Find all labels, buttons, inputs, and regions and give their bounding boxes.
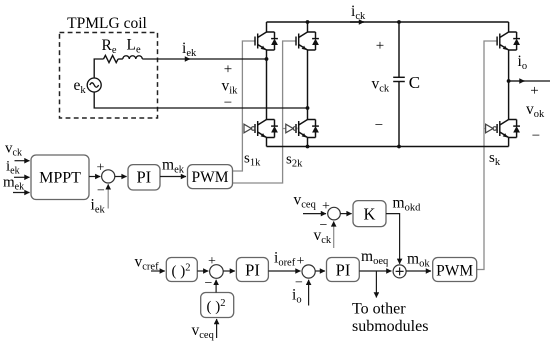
svg-text:PI: PI (245, 261, 260, 280)
svg-text:+: + (297, 254, 305, 269)
svg-text:+: + (224, 62, 232, 78)
source e_k (87, 78, 101, 92)
node cap bottom (397, 145, 401, 149)
svg-text:( )2: ( )2 (172, 263, 191, 280)
block K (353, 201, 386, 227)
node leg2 top (306, 20, 310, 24)
transistor S1k-top IGBT (255, 32, 278, 50)
node leg1 midpoint (265, 57, 269, 61)
svg-text:iek: iek (182, 40, 197, 59)
node leg2 midpoint (306, 106, 310, 110)
inductor L_e (123, 56, 143, 59)
wire PI3 to sum5 (m_oeq) (359, 270, 391, 272)
wire arrow v_ck into MPPT (15, 160, 30, 162)
wire sum5 to PWM2 (m_ok) (406, 270, 431, 272)
wire MPPT to sum1 (89, 176, 100, 178)
bottom DC rail (267, 146, 509, 148)
wire arrow m_ek into MPPT (13, 192, 30, 194)
svg-text:MPPT: MPPT (39, 170, 81, 187)
svg-text:−: − (97, 184, 105, 199)
svg-text:vceq: vceq (294, 192, 317, 211)
i_ck arrow on top rail (350, 21, 364, 23)
svg-text:C: C (409, 73, 420, 92)
svg-text:ek: ek (74, 77, 87, 96)
wire sum2 to PI2 (223, 270, 235, 272)
TPMLG dashed enclosure (60, 33, 158, 119)
svg-text:+: + (530, 83, 538, 99)
node leg2 bottom (306, 145, 310, 149)
wire source bottom to leg2 midpoint (94, 92, 307, 108)
svg-text:−: − (532, 128, 540, 144)
svg-text:mok: mok (407, 251, 430, 270)
resistor R_e (104, 55, 119, 62)
svg-text:vik: vik (222, 78, 239, 97)
node cap top (397, 20, 401, 24)
wire arrow i_ek into MPPT (14, 176, 30, 178)
transistor Sk-top IGBT (497, 32, 520, 50)
svg-text:PI: PI (336, 261, 351, 280)
svg-text:+: + (376, 38, 384, 54)
wire v_ceq into sum4 (303, 213, 326, 215)
wire v_ceq up into sq2 (216, 319, 218, 338)
svg-text:vck: vck (5, 141, 22, 159)
wire sq1 to sum2 (197, 270, 208, 272)
svg-text:−: − (224, 95, 232, 111)
summing junction sum3 (302, 265, 315, 278)
svg-text:mek: mek (162, 157, 185, 176)
wire i_ek feedback into sum1 (107, 184, 109, 208)
wire sum1 to PI1 (115, 176, 127, 178)
svg-text:ick: ick (351, 3, 366, 22)
svg-text:io: io (518, 53, 528, 72)
svg-text:iek: iek (91, 197, 106, 216)
wire K to sum5 (m_okd) (386, 214, 400, 264)
top DC rail (267, 21, 509, 23)
svg-text:+: + (208, 254, 216, 269)
wire s1k vertical (233, 41, 256, 171)
transistor S1k-bottom IGBT with inverter (244, 120, 278, 138)
wire sk vertical (477, 41, 498, 270)
svg-text:moeq: moeq (361, 248, 389, 267)
wire sq2 up into sum2 (215, 280, 217, 293)
transistor S2k-top IGBT (296, 32, 319, 50)
svg-text:vcref: vcref (135, 254, 160, 273)
wire right leg verticals (508, 22, 510, 147)
svg-text:Le: Le (127, 37, 141, 56)
svg-text:TPMLG coil: TPMLG coil (67, 15, 147, 32)
svg-text:To other: To other (352, 301, 406, 318)
block PI2 (236, 258, 268, 282)
svg-text:s2k: s2k (286, 152, 303, 170)
svg-text:Re: Re (102, 37, 117, 56)
wire v_ck into sum4 from below (333, 221, 335, 248)
svg-text:−: − (375, 118, 383, 134)
svg-text:+: + (322, 199, 330, 214)
summing junction sum2 (210, 265, 224, 279)
wire v_cref into sq1 (151, 270, 165, 272)
svg-text:vceq: vceq (192, 322, 215, 341)
summing junction sum4 (328, 207, 341, 220)
svg-text:mokd: mokd (393, 195, 422, 214)
capacitor C (393, 22, 405, 147)
svg-text:+: + (97, 161, 105, 176)
transistor Sk-bottom IGBT with inverter (484, 120, 520, 138)
wire leg2 verticals (307, 22, 309, 147)
wire PI1 to PWM1 (160, 176, 186, 178)
svg-text:vck: vck (372, 76, 390, 95)
block MPPT (31, 155, 89, 200)
block squarer1 ( )^2 (166, 258, 197, 282)
wire inductor to leg1 midpoint with i_ek arrow (142, 58, 190, 60)
block PWM1 (188, 165, 233, 189)
summing junction sum5 (circle with plus) (393, 265, 406, 278)
wire resistor to inductor (118, 58, 123, 60)
wire sum4 to K (340, 213, 351, 215)
svg-text:PWM: PWM (191, 169, 228, 186)
svg-text:PI: PI (136, 168, 151, 187)
wire source top to resistor (94, 59, 103, 78)
output wire right leg with i_o arrow (509, 80, 525, 82)
wire sum3 to PI3 (315, 270, 325, 272)
svg-text:PWM: PWM (436, 263, 473, 280)
svg-text:( )2: ( )2 (207, 298, 226, 315)
wire i_o into sum3 (308, 280, 310, 306)
wire branch to other submodules (375, 271, 377, 298)
block squarer2 ( )^2 (201, 293, 234, 318)
svg-text:s1k: s1k (244, 151, 261, 169)
transistor S2k-bottom IGBT with inverter (283, 120, 319, 138)
block PWM2 (433, 258, 477, 282)
wire leg1 verticals (266, 22, 268, 147)
svg-text:sk: sk (489, 150, 501, 168)
block PI3 (327, 258, 360, 282)
svg-text:submodules: submodules (352, 318, 428, 335)
wire PI2 to sum3 (i_oref) (268, 270, 300, 272)
svg-text:vok: vok (526, 101, 545, 120)
svg-text:−: − (205, 276, 213, 291)
block PI1 (128, 165, 160, 190)
wire s2k vertical (233, 41, 297, 183)
node right leg midpoint (507, 79, 511, 83)
svg-text:ioref: ioref (274, 250, 296, 269)
svg-text:K: K (364, 205, 376, 224)
summing junction sum1 (102, 170, 115, 183)
